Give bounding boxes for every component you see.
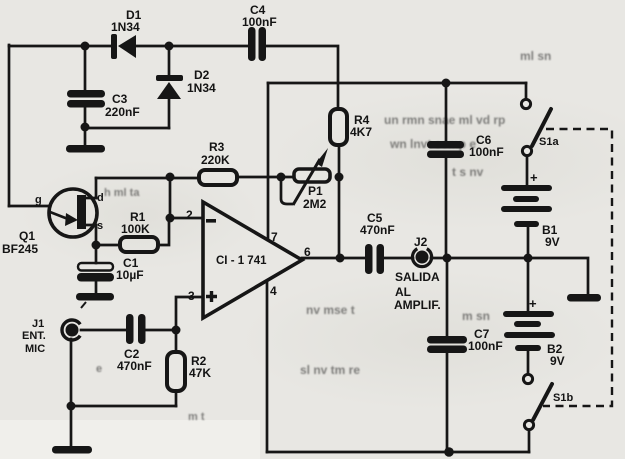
wire feedback drop [169,177,172,218]
svg-text:C3: C3 [112,92,128,106]
capacitor C3 [67,90,140,119]
connector J1 [22,318,80,355]
wire R2 bottom lead [175,391,178,406]
wire bottom rail [267,451,529,454]
capacitor C2 [117,314,152,373]
wire pin4 drop [266,281,269,452]
wire C3 bottom stem [84,107,87,145]
svg-text:d: d [97,192,104,204]
op-amp U1 CI-1 741 [186,202,311,318]
wire D1 to C4 [136,45,249,48]
wire C7 top stem [446,258,449,336]
wire J2 to right corner [431,258,588,294]
junction R3 P1 wiper node [277,173,286,182]
wire pin7 riser [267,83,270,240]
svg-text:P1: P1 [308,184,323,198]
wire C7 bottom stem [446,351,449,452]
wire C6 top stem [445,83,448,141]
svg-text:100nF: 100nF [242,15,277,29]
svg-text:4: 4 [270,284,277,298]
svg-text:9V: 9V [550,354,565,368]
wire source drop [95,225,98,263]
svg-text:47K: 47K [189,366,211,380]
svg-text:470nF: 470nF [360,223,395,237]
resistor R4 [330,109,372,145]
svg-text:AL: AL [395,285,411,299]
junction C2 node [172,326,181,335]
svg-text:g: g [35,194,42,206]
wire left rail vertical [8,45,11,206]
wire pin2 lead [170,217,203,220]
svg-text:nv mse t: nv mse t [306,303,355,317]
svg-text:s: s [97,220,103,232]
junction source C1 node [92,241,101,250]
wire R3 to P1 [237,176,294,179]
svg-text:10µF: 10µF [116,268,144,282]
svg-text:+: + [529,296,537,311]
wire R2 top lead [175,330,178,352]
battery B1 [501,170,560,249]
svg-text:9V: 9V [545,235,560,249]
wire D2 bottom stem [168,99,171,128]
svg-text:100K: 100K [121,222,150,236]
wire C2 right lead [146,329,176,332]
junction rail C6 node [442,79,451,88]
svg-text:Q1: Q1 [19,229,35,243]
wire R1 left lead [96,244,120,247]
junction output node [336,254,345,263]
svg-text:S1a: S1a [539,136,559,148]
wire C4 to R4 corner [265,46,338,109]
wire J1 stem [70,339,73,446]
svg-text:J1: J1 [32,318,44,330]
svg-text:1N34: 1N34 [111,20,140,34]
wire output to C5 [302,257,365,260]
wire top-left horizontal [9,45,112,48]
svg-text:sl nv tm re: sl nv tm re [300,363,360,377]
capacitor C1 [77,256,144,282]
wire J1 to C2 [81,329,126,332]
wire C3 top stem [84,46,87,90]
capacitor C5 [360,211,395,274]
svg-text:ENT.: ENT. [22,330,46,342]
junction bottom rail C7 node [444,447,454,457]
svg-text:6: 6 [304,245,311,259]
svg-text:MIC: MIC [25,343,45,355]
switch S1a [521,99,559,155]
capacitor C4 [242,3,277,61]
wire B2 to S1b [527,350,530,374]
junction C3 D2 node [81,123,90,132]
diode D1 [111,8,142,59]
svg-text:4K7: 4K7 [350,125,372,139]
wire V+ rail [268,82,526,85]
wire S1a feed [525,83,528,99]
svg-text:AMPLIF.: AMPLIF. [394,298,441,312]
ground right [567,294,601,302]
junction mid rail C7 node [443,254,452,263]
wire gate lead [9,205,50,208]
svg-text:S1b: S1b [553,392,573,404]
svg-text:100nF: 100nF [469,145,504,159]
svg-text:m t: m t [188,411,205,423]
dashed battery enclosure [543,129,612,406]
wire D2 to C3 node [85,127,169,130]
junction pin2 node [166,214,175,223]
wire R4 bottom to output node [338,145,341,258]
wire C1 to ground [95,281,98,293]
ground under C1 [76,293,114,308]
junction C3 top node [81,42,90,51]
svg-text:220K: 220K [201,153,230,167]
ground under J1 [52,446,92,454]
capacitor C6 [427,133,504,159]
svg-text:220nF: 220nF [105,105,140,119]
potentiometer P1 [281,148,330,211]
junction J1 R2 ground node [67,402,76,411]
resistor R3 [199,140,237,185]
wire R2 to J1 ground [71,405,176,408]
wire B1 to rail to B2 [527,226,530,311]
resistor R2 [167,352,211,391]
junction drain R3 node [166,173,175,182]
wire drain to R3 [96,177,199,180]
ground under C3 [66,145,105,153]
svg-text:D2: D2 [194,68,210,82]
wire S1b bottom riser [528,430,531,452]
diode D2 [156,68,216,99]
svg-text:SALIDA: SALIDA [395,270,440,284]
svg-text:+: + [530,170,538,185]
battery B2 [503,296,565,368]
svg-text:CI - 1 741: CI - 1 741 [216,255,267,267]
junction battery rail node [524,254,533,263]
junction P1 R4 node [335,173,344,182]
svg-text:2: 2 [186,208,193,222]
svg-text:m sn: m sn [462,309,490,323]
svg-text:470nF: 470nF [117,359,152,373]
transistor Q1 [2,189,104,256]
wire C5 to J2 [383,257,413,260]
svg-text:1N34: 1N34 [187,81,216,95]
wire drain stub [86,197,96,200]
svg-text:e: e [96,363,102,375]
svg-text:h ml ta: h ml ta [104,187,140,199]
svg-text:2M2: 2M2 [303,197,327,211]
svg-text:BF245: BF245 [2,242,38,256]
wire R1 right lead [158,218,169,245]
capacitor C7 [427,327,503,353]
svg-text:100nF: 100nF [468,339,503,353]
svg-text:t s nv: t s nv [452,165,484,179]
wire C6 to rail [445,157,448,258]
svg-text:3: 3 [188,289,195,303]
svg-text:J2: J2 [414,235,428,249]
connector J2 [394,235,441,312]
svg-text:7: 7 [271,230,278,244]
wire S1a to B1 [526,156,529,185]
wire D2 top stem [168,46,171,76]
switch S1b [523,374,573,429]
wire pin3 riser [176,297,203,330]
wire source stub [86,224,96,227]
wire drain riser [95,178,98,198]
resistor R1 [120,210,158,252]
svg-text:ml sn: ml sn [520,49,551,63]
svg-text:R3: R3 [209,140,225,154]
junction D1 D2 node [165,42,174,51]
